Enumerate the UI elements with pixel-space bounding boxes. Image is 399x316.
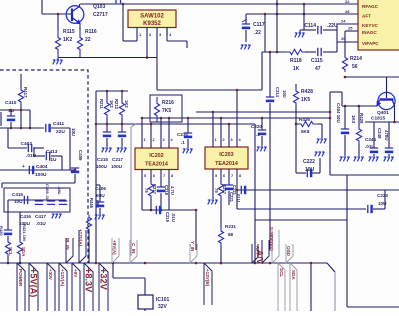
- wire y209 rail: [237, 208, 366, 210]
- wire y175 rail: [330, 174, 399, 176]
- wire KEYVC-VIFAPC link: [336, 24, 338, 52]
- capacitor C216: [187, 118, 189, 133]
- wire SAW pin2: [146, 35, 148, 58]
- capacitor C248: [388, 122, 390, 148]
- svg-text:2: 2: [223, 138, 225, 142]
- svg-text:TEA2014: TEA2014: [215, 161, 238, 167]
- flag A/V: [262, 240, 269, 263]
- capacitor C221: [240, 186, 242, 194]
- svg-text:C408 .1U: C408 .1U: [45, 184, 50, 201]
- svg-text:5: 5: [144, 174, 146, 178]
- flag +8.3V: [83, 263, 85, 311]
- svg-text:3: 3: [231, 138, 233, 142]
- transistor Q401: [378, 92, 395, 109]
- svg-text:C244: C244: [365, 137, 376, 142]
- pin 25 stub: [345, 30, 358, 32]
- svg-text:1K3: 1K3: [351, 115, 356, 124]
- resistor R212: [121, 91, 123, 100]
- ground C406: [95, 215, 97, 219]
- svg-text:R115: R115: [63, 29, 75, 35]
- wire y91 rail: [96, 90, 128, 92]
- svg-text:C1815: C1815: [371, 116, 385, 122]
- svg-text:32V: 32V: [158, 304, 168, 310]
- wire top feed: [41, 0, 43, 14]
- resistor R214: [344, 31, 346, 55]
- op-amp IC203: [205, 147, 248, 169]
- pins IC202 bottom: [141, 170, 143, 211]
- capacitor C220: [261, 118, 263, 130]
- svg-text:C413: C413: [46, 149, 58, 155]
- svg-text:2: 2: [153, 138, 155, 142]
- svg-text:.1: .1: [256, 132, 260, 137]
- svg-text:Q401: Q401: [377, 110, 389, 116]
- ground C404b: [340, 157, 342, 161]
- capacitor C415: [23, 196, 25, 204]
- svg-text:C114: C114: [304, 23, 316, 29]
- wire y210 under IC202: [142, 209, 196, 211]
- wire base drop R115: [57, 14, 59, 30]
- svg-text:8: 8: [171, 174, 173, 178]
- svg-text:R231: R231: [225, 224, 236, 229]
- svg-text:56: 56: [352, 64, 358, 70]
- svg-text:+32V: +32V: [99, 268, 109, 291]
- ground C244: [369, 157, 371, 161]
- flag SCL: [277, 263, 279, 311]
- pin 26 stub: [337, 41, 358, 43]
- wire y118 bus: [142, 117, 330, 119]
- svg-text:75: 75: [214, 188, 219, 193]
- flag Y_IN: [190, 244, 197, 263]
- flag C_IN: [130, 240, 137, 263]
- wire RFAGC bus: [80, 3, 358, 5]
- svg-text:C402: C402: [21, 141, 33, 147]
- svg-text:K9352: K9352: [143, 21, 161, 27]
- wire y112 bus: [196, 111, 330, 113]
- resistor R217: [148, 182, 153, 198]
- svg-text:R212: R212: [114, 99, 119, 110]
- svg-text:7: 7: [163, 174, 165, 178]
- wire y110: [0, 109, 30, 111]
- svg-text:22: 22: [345, 0, 350, 4]
- svg-text:1: 1: [144, 138, 146, 142]
- svg-text:C219: C219: [165, 212, 170, 223]
- svg-text:+5V(A): +5V(A): [29, 268, 39, 297]
- capacitor C217: [118, 131, 126, 133]
- svg-text:10U: 10U: [71, 128, 76, 136]
- svg-text:100U: 100U: [35, 172, 47, 178]
- svg-text:.01U: .01U: [236, 193, 241, 202]
- svg-text:C404 10U: C404 10U: [336, 103, 341, 123]
- svg-text:.22: .22: [254, 30, 261, 36]
- svg-text:470U: 470U: [384, 130, 389, 141]
- svg-text:28: 28: [345, 9, 350, 14]
- svg-text:R446: R446: [89, 198, 94, 209]
- svg-text:1K2: 1K2: [109, 100, 114, 108]
- svg-text:SDA: SDA: [291, 270, 296, 280]
- ground pin5 IC203: [208, 200, 210, 204]
- svg-text:R211: R211: [99, 99, 104, 109]
- svg-text:.01U: .01U: [171, 213, 176, 222]
- svg-text:RFAGC: RFAGC: [362, 4, 379, 9]
- capacitor C221a: [225, 184, 233, 186]
- wire collector rail y122: [365, 121, 399, 123]
- svg-text:+9V(A): +9V(A): [112, 240, 117, 255]
- svg-text:R417: R417: [23, 87, 28, 98]
- svg-text:1K5: 1K5: [301, 97, 310, 103]
- svg-text:5: 5: [215, 174, 217, 178]
- wire left col: [7, 200, 9, 230]
- svg-text:10U: 10U: [378, 201, 387, 206]
- flag AFT: [252, 244, 258, 263]
- svg-text:100U: 100U: [96, 164, 108, 169]
- flag +12V(A) low: [58, 263, 60, 311]
- svg-text:+30V: +30V: [48, 269, 53, 281]
- wire x157 from SAW pin3: [156, 58, 158, 91]
- resistor R118: [287, 49, 305, 54]
- svg-text:C314: C314: [275, 87, 280, 98]
- resistor R420 SCL: [5, 240, 10, 256]
- wire AFT drop x265: [264, 14, 266, 52]
- capacitor C404: [28, 166, 30, 174]
- resistor R421 SDA: [19, 212, 21, 240]
- svg-text:OSD: OSD: [286, 246, 291, 257]
- flag POWER: [16, 263, 18, 311]
- svg-text:R116: R116: [85, 29, 97, 35]
- capacitor C244: [373, 122, 375, 148]
- svg-text:C416: C416: [20, 214, 31, 219]
- svg-text:4.7U: 4.7U: [170, 186, 175, 195]
- svg-text:SCL: SCL: [8, 247, 13, 256]
- svg-text:47: 47: [315, 66, 321, 72]
- capacitor C417: [47, 200, 55, 202]
- capacitor C117: [245, 14, 247, 24]
- wire ground rail y57: [58, 57, 157, 59]
- svg-text:.01U: .01U: [36, 221, 46, 226]
- svg-text:+12V(A): +12V(A): [78, 229, 83, 247]
- svg-text:+8.3V: +8.3V: [84, 268, 94, 293]
- ground C220: [257, 147, 259, 151]
- svg-text:C248: C248: [377, 128, 382, 139]
- op-amp IC202: [135, 148, 178, 170]
- svg-text:3: 3: [163, 138, 165, 142]
- svg-text:C217: C217: [112, 157, 123, 162]
- svg-text:Q103: Q103: [93, 4, 105, 10]
- flag +9V(A): [112, 238, 119, 263]
- wire x385 link: [384, 190, 386, 209]
- svg-text:IC203: IC203: [219, 152, 233, 158]
- pins IC203 top: [212, 112, 214, 147]
- pins IC202 top: [141, 118, 143, 148]
- svg-text:TEA2014: TEA2014: [145, 162, 168, 168]
- ground C216: [183, 149, 185, 153]
- svg-text:1K: 1K: [293, 66, 300, 72]
- wire collector rail y77: [345, 76, 399, 78]
- wire y170: [0, 169, 75, 171]
- wire left rail x96: [95, 91, 97, 263]
- resistor R211: [106, 91, 108, 100]
- svg-text:C406: C406: [95, 186, 106, 191]
- wire y190 rail: [237, 189, 399, 191]
- resistor R216: [154, 97, 159, 122]
- wire emitter: [79, 24, 81, 31]
- svg-text:.1U: .1U: [49, 157, 57, 163]
- wire SAW pin4 out: [166, 28, 168, 42]
- net C_IN gray tail: [130, 127, 132, 256]
- flag IR_IN: [66, 238, 73, 263]
- svg-text:+9V: +9V: [73, 269, 78, 278]
- wire x255 AFT drop: [254, 124, 256, 263]
- ground C217: [117, 148, 119, 152]
- svg-text:1: 1: [215, 138, 217, 142]
- op-amp IC (IF IC) box: [358, 0, 399, 50]
- wire y128: [0, 127, 44, 129]
- ground in box: [52, 214, 54, 218]
- wire y200 inside box: [8, 199, 66, 201]
- wire emitter feed: [330, 91, 342, 93]
- svg-text:10U: 10U: [282, 90, 287, 98]
- resistor R417: [20, 74, 22, 88]
- flag +12V(A) up: [79, 230, 86, 263]
- dashed enclosure: [0, 70, 88, 263]
- ground C215: [102, 148, 104, 152]
- capacitor C408: [59, 200, 67, 202]
- capacitor C218: [157, 186, 165, 188]
- resistor R317: [218, 182, 223, 198]
- capacitor C219: [155, 206, 157, 214]
- ground R429: [354, 157, 356, 161]
- svg-text:C115: C115: [311, 58, 323, 64]
- wire x330 vertical: [329, 92, 331, 175]
- svg-text:R420: R420: [0, 226, 4, 236]
- capacitor C411: [45, 124, 47, 132]
- wire left edge stub: [0, 112, 2, 126]
- box low-pass module: [4, 188, 70, 212]
- ground C222: [319, 158, 321, 173]
- svg-text:75: 75: [144, 188, 149, 193]
- wire link x304: [303, 4, 305, 14]
- svg-text:22: 22: [85, 37, 91, 43]
- svg-text:S_VIDEO(Y): S_VIDEO(Y): [269, 227, 274, 251]
- svg-text:24: 24: [341, 19, 346, 24]
- capacitor C114: [304, 29, 316, 31]
- svg-text:SDA: SDA: [21, 247, 26, 257]
- resistor R428: [295, 84, 297, 88]
- wire collector: [79, 4, 81, 7]
- svg-text:+12V(A): +12V(A): [60, 269, 65, 287]
- svg-text:1K2: 1K2: [124, 100, 129, 108]
- capacitor C223: [367, 205, 369, 213]
- svg-text:KEYVC: KEYVC: [362, 23, 379, 28]
- svg-text:+12V(B): +12V(B): [205, 269, 210, 287]
- box R216 module: [150, 95, 182, 122]
- svg-text:6: 6: [223, 174, 225, 178]
- capacitor C410: [10, 110, 12, 116]
- resistor R116: [77, 30, 82, 57]
- ground C117: [241, 45, 243, 49]
- ground C248: [384, 157, 386, 161]
- wire AFT bus: [246, 13, 358, 15]
- svg-text:6: 6: [153, 174, 155, 178]
- svg-text:C223: C223: [377, 193, 388, 198]
- svg-text:R118: R118: [290, 58, 302, 64]
- flag S_VIDEO(Y): [272, 230, 279, 263]
- svg-text:C218: C218: [164, 185, 169, 196]
- svg-text:C215: C215: [97, 157, 108, 162]
- svg-text:.1: .1: [181, 140, 185, 145]
- svg-text:C222: C222: [303, 159, 315, 165]
- svg-text:R216: R216: [162, 100, 174, 106]
- flag +30V: [46, 263, 48, 311]
- resistor R115: [55, 30, 60, 57]
- bus corner diagonal: [327, 263, 335, 272]
- wire x262 down: [261, 52, 263, 90]
- svg-text:100U: 100U: [111, 164, 123, 169]
- svg-text:C220: C220: [251, 124, 262, 129]
- svg-text:R214: R214: [350, 56, 362, 62]
- svg-text:.01U: .01U: [365, 144, 375, 149]
- flag +12V(B): [203, 263, 205, 305]
- svg-text:C411: C411: [53, 121, 65, 127]
- capacitor C215: [103, 131, 111, 133]
- wire y124 bus: [96, 123, 255, 125]
- wire y52 rail: [262, 51, 287, 53]
- resistor R426: [295, 123, 298, 126]
- capacitor C402: [8, 147, 27, 149]
- wire y307 out: [347, 306, 399, 308]
- capacitor C222: [296, 172, 306, 174]
- svg-text:C404: C404: [36, 164, 48, 170]
- svg-text:R428: R428: [301, 89, 313, 95]
- svg-text:INAGC: INAGC: [362, 30, 377, 35]
- svg-text:Y_IN: Y_IN: [190, 241, 195, 252]
- capacitor C416: [38, 200, 40, 201]
- resistor R231: [218, 228, 223, 246]
- wire x270 video drop: [269, 52, 271, 97]
- svg-text:C409: C409: [78, 150, 83, 161]
- saw filter SAW102: [128, 10, 176, 28]
- wire vertical x277: [276, 0, 278, 52]
- capacitor C413: [34, 155, 45, 157]
- flag +5V(A): [28, 263, 30, 311]
- svg-text:C221: C221: [229, 192, 234, 203]
- wire y183: [2, 182, 75, 184]
- svg-text:C417: C417: [35, 214, 46, 219]
- svg-text:SAW102: SAW102: [140, 14, 164, 20]
- svg-text:1K2: 1K2: [63, 37, 72, 43]
- wire +32V to IC101: [112, 263, 114, 278]
- transistor Q103: [66, 6, 84, 24]
- svg-text:C216: C216: [177, 132, 188, 137]
- pin stubs SAW102: [136, 28, 138, 36]
- regulator IC101: [138, 295, 153, 309]
- svg-text:25: 25: [348, 26, 353, 31]
- resistor R429 1K3: [358, 106, 360, 126]
- capacitor C116 top edge: [116, 0, 121, 3]
- svg-text:.68U: .68U: [57, 186, 62, 195]
- svg-text:A/V: A/V: [255, 250, 265, 265]
- svg-text:IC202: IC202: [149, 153, 163, 159]
- svg-text:AFT: AFT: [362, 14, 371, 19]
- svg-text:R429: R429: [359, 113, 364, 124]
- capacitor C420: [4, 229, 12, 231]
- wire Y_IN drop: [195, 210, 197, 250]
- wire x70 down: [69, 128, 71, 170]
- svg-text:10U: 10U: [305, 167, 315, 173]
- flag SDA: [289, 263, 291, 311]
- wire SAW pin1 feed: [122, 4, 124, 41]
- svg-text:C2717: C2717: [93, 12, 108, 18]
- svg-text:7: 7: [231, 174, 233, 178]
- bus wire: [0, 262, 327, 264]
- wire x347 vertical: [346, 175, 348, 307]
- svg-text:IR_IN: IR_IN: [65, 238, 70, 250]
- wire y90 run: [157, 89, 262, 91]
- svg-text:C415: C415: [12, 192, 23, 197]
- svg-text:10U: 10U: [14, 199, 23, 204]
- svg-text:VIFAPC: VIFAPC: [362, 41, 379, 46]
- svg-text:C117: C117: [253, 22, 265, 28]
- svg-text:C410: C410: [5, 100, 17, 106]
- svg-text:SCL: SCL: [279, 268, 284, 277]
- pins IC203 bottom: [212, 169, 214, 199]
- capacitor C409: [74, 168, 76, 170]
- flag +9V: [71, 263, 73, 311]
- svg-text:6K8: 6K8: [301, 129, 310, 134]
- svg-text:7K5: 7K5: [162, 108, 171, 114]
- ground C114 left: [303, 14, 305, 30]
- ground: [53, 60, 55, 64]
- wire SAW pin3: [156, 35, 158, 58]
- wire y220 rail: [255, 219, 347, 221]
- svg-text:.22U: .22U: [327, 23, 338, 29]
- svg-text:+: +: [22, 164, 25, 170]
- svg-text:POWER: POWER: [18, 269, 23, 287]
- wire drop x311: [310, 263, 312, 311]
- svg-text:R421 100: R421 100: [22, 224, 27, 242]
- svg-text:8: 8: [239, 174, 241, 178]
- svg-text:IC101: IC101: [156, 297, 170, 303]
- ground R426: [318, 123, 322, 125]
- svg-text:R217: R217: [152, 184, 157, 195]
- flag OSD: [286, 244, 293, 263]
- capacitor C115: [305, 51, 316, 53]
- pin 24 stub: [337, 23, 358, 25]
- flag +32V: [98, 263, 100, 311]
- capacitor C314: [266, 96, 274, 98]
- svg-text:C_IN: C_IN: [131, 243, 136, 254]
- svg-text:22U: 22U: [56, 129, 65, 135]
- svg-text:68: 68: [228, 232, 234, 237]
- wire x296 down: [295, 124, 297, 173]
